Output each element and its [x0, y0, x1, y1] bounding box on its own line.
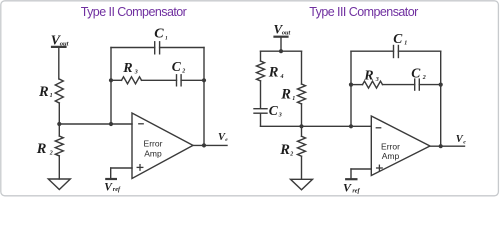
- svg-text:C: C: [393, 31, 403, 46]
- node Vref terminal (right circuit): [343, 179, 361, 194]
- svg-text:R: R: [122, 61, 132, 76]
- junction dot mid-branch right: [202, 78, 206, 82]
- resistor R2 (left circuit): [36, 124, 64, 157]
- svg-text:out: out: [282, 30, 291, 37]
- wire feedback top-right segment (right circuit): [398, 50, 440, 52]
- resistor R4 (right circuit): [257, 61, 284, 81]
- wire C2 to feedback right: [181, 79, 204, 81]
- capacitor C2 (right circuit): [411, 66, 426, 91]
- wire feedback top-right segment: [160, 47, 204, 49]
- wire right branch upper: [301, 51, 303, 84]
- wire feedback top-left segment: [111, 47, 155, 49]
- wire Vref to non-inverting input (right circuit): [351, 169, 371, 179]
- ground (left circuit): [48, 179, 70, 190]
- capacitor C2 (left circuit): [172, 59, 186, 86]
- node Ve label (left circuit): [218, 132, 228, 143]
- svg-text:R: R: [279, 142, 290, 158]
- wire Vout to R1: [58, 47, 60, 79]
- node A junction dot: [57, 122, 61, 126]
- capacitor C1 (left circuit): [154, 26, 168, 54]
- wire feedback left vertical: [110, 48, 112, 125]
- wire C3 to bottom rail: [260, 113, 262, 126]
- capacitor C3 (right circuit): [254, 103, 282, 119]
- svg-text:1: 1: [404, 41, 407, 47]
- svg-text:2: 2: [181, 69, 185, 75]
- svg-text:3: 3: [134, 70, 138, 76]
- svg-text:2: 2: [289, 152, 293, 158]
- resistor R2 (right circuit): [279, 126, 305, 158]
- node Vout terminal (left circuit): [51, 33, 69, 48]
- svg-text:Error: Error: [144, 139, 163, 149]
- junction dot bottom rail at R1: [299, 124, 303, 128]
- wire feedback right vertical (right circuit): [440, 51, 442, 146]
- svg-text:1: 1: [165, 35, 168, 41]
- wire node A to op-amp inverting input: [59, 123, 132, 125]
- wire input top rail: [261, 50, 302, 52]
- op-amp U2 Error Amp (right circuit): [371, 116, 430, 176]
- junction dot output node: [202, 143, 206, 147]
- junction dot output node (right circuit): [439, 144, 443, 148]
- svg-text:3: 3: [375, 77, 379, 83]
- svg-text:1: 1: [50, 93, 53, 99]
- node Vout terminal (right circuit): [274, 22, 291, 37]
- resistor R1 (left circuit): [38, 79, 63, 103]
- svg-text:3: 3: [278, 113, 282, 119]
- wire left branch upper: [260, 51, 262, 61]
- wire mid-branch left stub: [111, 79, 122, 81]
- wire R4 to C3: [260, 81, 262, 108]
- wire op-amp output: [193, 144, 227, 146]
- svg-text:C: C: [154, 26, 164, 41]
- svg-text:Error: Error: [381, 141, 400, 151]
- ground (right circuit): [291, 179, 313, 190]
- svg-text:Type II Compensator: Type II Compensator: [81, 5, 187, 19]
- svg-text:R: R: [363, 69, 373, 84]
- wire op-amp output (right circuit): [430, 145, 465, 147]
- svg-text:C: C: [411, 66, 421, 81]
- wire R1 to node A: [58, 103, 60, 124]
- svg-text:Amp: Amp: [144, 149, 162, 159]
- junction dot bottom rail at feedback: [349, 124, 353, 128]
- svg-text:Type III Compensator: Type III Compensator: [309, 5, 418, 19]
- resistor R1 (right circuit): [280, 84, 305, 104]
- capacitor C1 (right circuit): [393, 31, 407, 58]
- node Ve label (right circuit): [456, 134, 466, 145]
- svg-text:R: R: [280, 87, 291, 103]
- svg-text:V: V: [343, 181, 352, 195]
- wire R3 to C2 (right circuit): [383, 84, 415, 86]
- svg-text:2: 2: [422, 75, 426, 81]
- svg-text:out: out: [60, 40, 69, 47]
- svg-text:ref: ref: [352, 188, 360, 195]
- svg-text:R: R: [268, 65, 279, 81]
- op-amp U1 Error Amp (left circuit): [132, 113, 193, 179]
- svg-text:2: 2: [49, 151, 53, 157]
- wire feedback right vertical: [203, 48, 205, 146]
- junction dot feedback-left bottom: [109, 122, 113, 126]
- node Vref terminal (left circuit): [104, 179, 121, 194]
- wire C2 to feedback right (right circuit): [419, 84, 440, 86]
- wire R2 to ground: [301, 156, 303, 179]
- wire R3 to C2: [142, 79, 177, 81]
- svg-text:ref: ref: [113, 186, 121, 193]
- svg-text:R: R: [38, 84, 49, 100]
- svg-text:Amp: Amp: [382, 151, 400, 161]
- wire bottom rail to op-amp inverting input: [261, 125, 372, 127]
- wire mid-branch left stub (right circuit): [351, 84, 363, 86]
- wire R2 to ground: [58, 156, 60, 179]
- svg-text:C: C: [269, 103, 279, 118]
- resistor R3 (right circuit): [363, 69, 383, 89]
- svg-text:4: 4: [280, 74, 284, 80]
- junction dot mid-branch left: [109, 78, 113, 82]
- junction dot input split: [279, 49, 283, 53]
- wire R1 to bottom rail: [301, 104, 303, 126]
- svg-text:R: R: [36, 141, 47, 157]
- svg-text:C: C: [172, 59, 182, 74]
- svg-text:1: 1: [292, 96, 295, 102]
- junction dot mid-branch right (right circuit): [439, 83, 443, 87]
- wire Vref to non-inverting input: [111, 168, 132, 178]
- wire feedback top-left segment (right circuit): [351, 50, 394, 52]
- junction dot mid-branch left (right circuit): [349, 83, 353, 87]
- wire feedback left vertical (right circuit): [350, 51, 352, 126]
- resistor R3 (left circuit): [122, 61, 142, 84]
- wire Vout to input node: [280, 37, 282, 51]
